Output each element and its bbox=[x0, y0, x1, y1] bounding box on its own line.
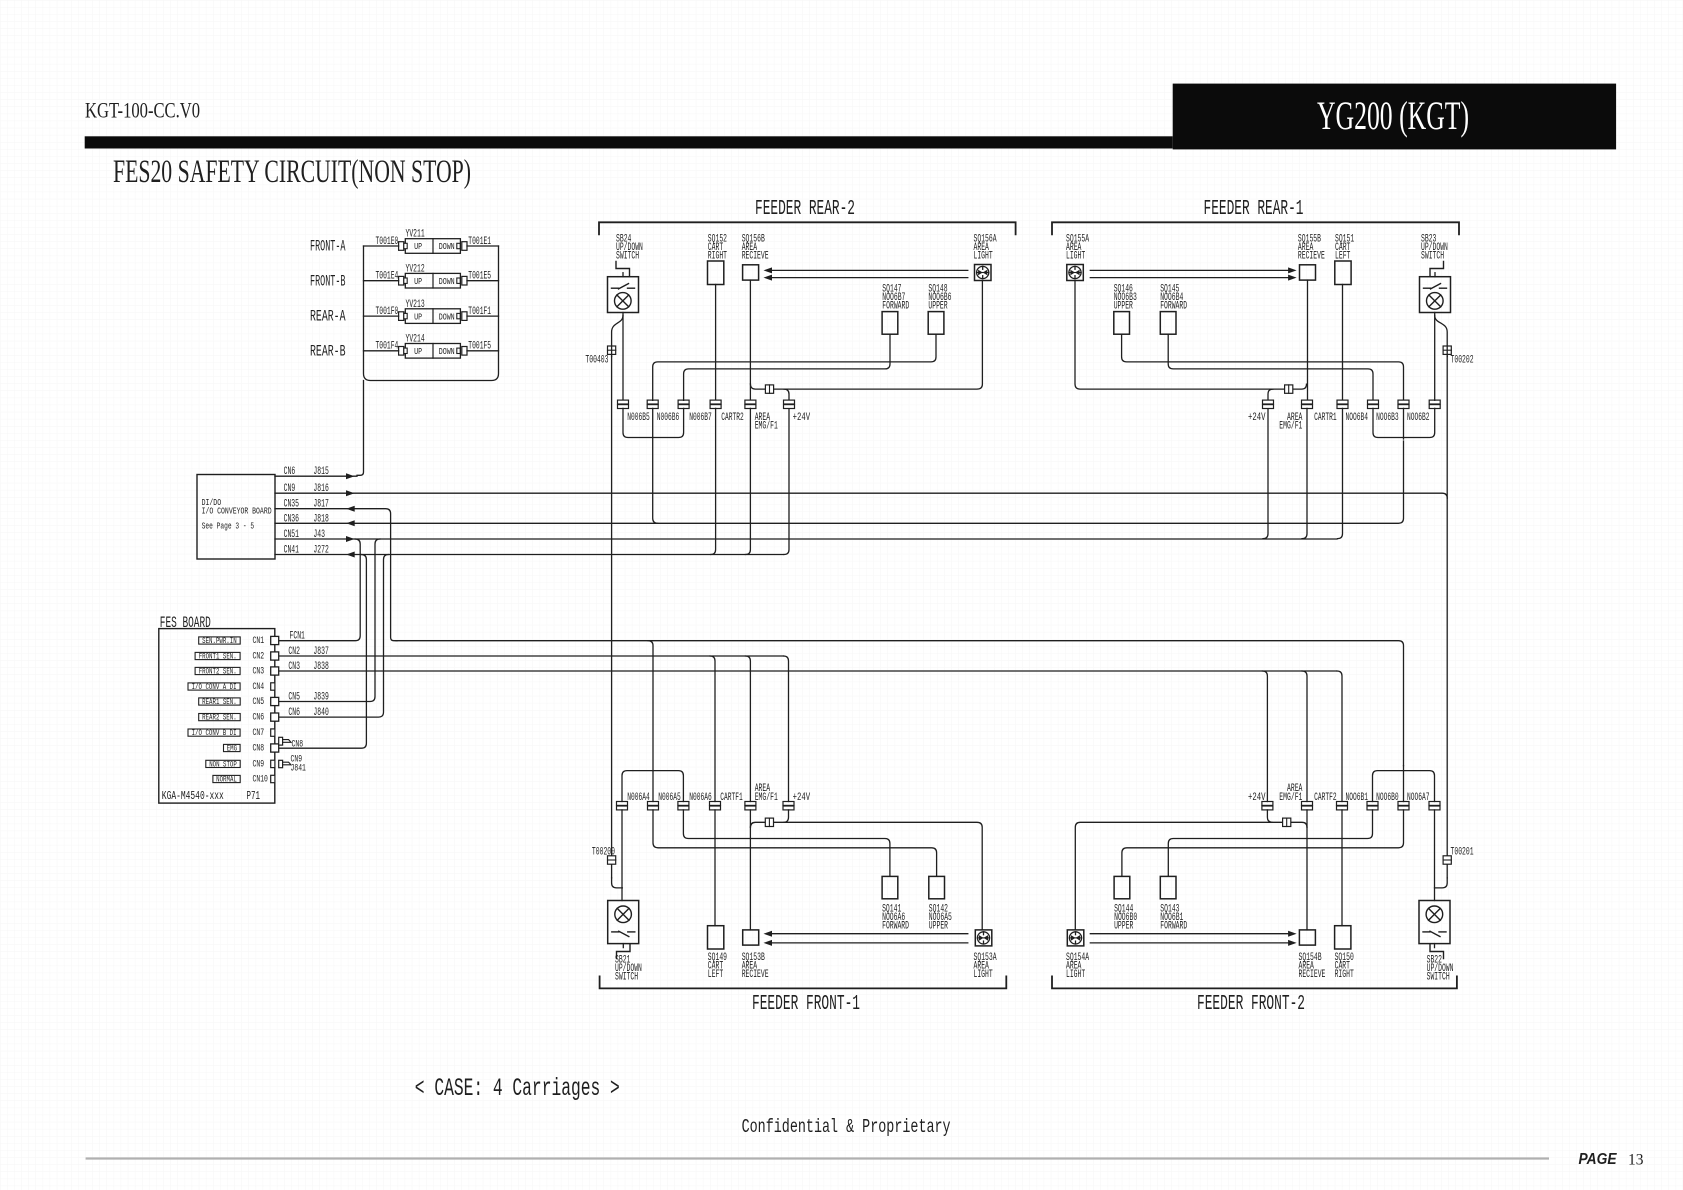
svg-text:RECIEVE: RECIEVE bbox=[1298, 251, 1325, 263]
wire J818 net bbox=[275, 441, 1404, 523]
wire AREA to J840 bbox=[745, 408, 750, 554]
svg-text:T00403: T00403 bbox=[585, 355, 608, 367]
relay YV211 left connector bbox=[399, 242, 404, 251]
wire NOO6B0 bus stub bbox=[1403, 766, 1405, 802]
svg-text:N006A4: N006A4 bbox=[627, 792, 650, 804]
arrow J816 bbox=[346, 490, 355, 496]
wire +24V fuse link front-2 bbox=[1075, 822, 1307, 930]
svg-text:CARTF2: CARTF2 bbox=[1314, 792, 1337, 804]
wire SQ147 to N006B7 bbox=[684, 334, 890, 400]
svg-text:EMG/F1: EMG/F1 bbox=[1279, 421, 1302, 433]
switch SB22 contact bbox=[1423, 931, 1430, 933]
terminal CARTR1 bbox=[1337, 400, 1348, 404]
wire REAR2SEN riser (CN6-J840) bbox=[279, 555, 389, 718]
svg-text:KGT-100-CC.V0: KGT-100-CC.V0 bbox=[85, 98, 200, 123]
wire REAR-B right bbox=[467, 350, 499, 352]
svg-text:UP: UP bbox=[414, 241, 422, 252]
svg-text:FES20 SAFETY CIRCUIT(NON STOP): FES20 SAFETY CIRCUIT(NON STOP) bbox=[113, 154, 471, 190]
terminal N006B5 bbox=[618, 400, 629, 404]
svg-text:EMG: EMG bbox=[227, 743, 237, 753]
svg-text:I/O CONVEYOR BOARD: I/O CONVEYOR BOARD bbox=[202, 506, 272, 517]
title banner bbox=[1173, 84, 1616, 150]
wire +24V front-2 to fuse bbox=[1267, 810, 1272, 822]
wire SQ141 to N006A6 bbox=[683, 810, 890, 877]
sensor SQ149 body bbox=[708, 926, 724, 949]
wire NOO6B0 to SQ144 bbox=[1122, 810, 1404, 877]
svg-text:+24V: +24V bbox=[793, 412, 811, 424]
node FES REAR1 SEN. box bbox=[199, 698, 241, 705]
wire J817 long net bbox=[396, 641, 1404, 766]
switch SB21 actuator bbox=[617, 945, 631, 959]
svg-text:UP: UP bbox=[414, 346, 422, 357]
wire AREA front-1 to SQ153B bbox=[749, 810, 751, 930]
svg-text:RECIEVE: RECIEVE bbox=[742, 251, 769, 263]
svg-text:EMG/F1: EMG/F1 bbox=[755, 792, 778, 804]
wire SQ153A arrows bbox=[771, 933, 968, 935]
terminal CARTF2 bbox=[1337, 802, 1348, 806]
svg-text:UPPER: UPPER bbox=[929, 921, 948, 933]
svg-text:CN3: CN3 bbox=[253, 666, 265, 678]
svg-text:I/O CONV B DI: I/O CONV B DI bbox=[192, 728, 237, 738]
connector fuse front-2 bbox=[1283, 818, 1291, 826]
svg-text:P71: P71 bbox=[247, 790, 261, 803]
svg-text:CN10: CN10 bbox=[253, 774, 268, 786]
sensor SQ142 body bbox=[929, 876, 945, 898]
terminal AREA EMG/F1 front-1 bbox=[745, 802, 756, 806]
arrow J815 bbox=[346, 473, 355, 479]
svg-text:CN1: CN1 bbox=[253, 635, 265, 647]
terminal N006A6 bbox=[678, 802, 689, 806]
svg-text:KGA-M4540-xxx: KGA-M4540-xxx bbox=[162, 790, 224, 803]
svg-text:REAR-B: REAR-B bbox=[310, 342, 346, 360]
svg-text:+24V: +24V bbox=[1248, 792, 1266, 804]
svg-text:NOO6B1: NOO6B1 bbox=[1346, 792, 1369, 804]
FES CN4 stub bbox=[271, 683, 275, 690]
svg-text:CN2: CN2 bbox=[288, 646, 300, 658]
wire NOO6B3 bus drop bbox=[1403, 408, 1405, 439]
connector T00403 bbox=[608, 346, 616, 354]
FES CN9 stub bbox=[271, 760, 275, 767]
svg-text:NOO6B4: NOO6B4 bbox=[1346, 412, 1369, 424]
relay YV213 right connector bbox=[457, 313, 460, 318]
FES CN6 stub bbox=[271, 713, 279, 721]
switch SB22 body bbox=[1419, 901, 1450, 944]
FES CN8 stub bbox=[271, 744, 279, 752]
relay YV211 right connector bbox=[457, 243, 460, 248]
svg-text:J838: J838 bbox=[313, 661, 328, 673]
svg-text:PAGE: PAGE bbox=[1579, 1151, 1618, 1168]
relay YV212 body bbox=[405, 273, 460, 288]
wire +24V front-2 riser to J838 bbox=[1262, 671, 1267, 802]
svg-text:SWITCH: SWITCH bbox=[616, 251, 639, 263]
svg-text:CN3: CN3 bbox=[288, 661, 300, 673]
sensor SQ155B body bbox=[1300, 265, 1316, 280]
wire J817 stub jog bbox=[275, 509, 397, 641]
wire FCN1 riser (CN51-CN1) bbox=[279, 539, 361, 641]
wire EMG riser (CN41-CN8) bbox=[279, 555, 367, 749]
wire FRONT-B right bbox=[467, 280, 499, 282]
terminal CARTR2 bbox=[710, 400, 721, 404]
terminal +24V rear-2 bbox=[784, 400, 795, 404]
switch SB24 actuator bbox=[616, 262, 630, 276]
svg-text:LIGHT: LIGHT bbox=[1066, 969, 1085, 981]
svg-text:LIGHT: LIGHT bbox=[1066, 251, 1085, 263]
FEEDER REAR-2 bracket bbox=[599, 222, 1016, 234]
wire SQ156B to AREA EMG/F1 bbox=[749, 280, 751, 400]
wire +24V front-1 riser to J837 bbox=[784, 656, 789, 802]
svg-text:+24V: +24V bbox=[793, 792, 811, 804]
sensor SQ152 body bbox=[708, 261, 724, 285]
svg-text:DOWN: DOWN bbox=[439, 311, 455, 322]
switch SB23 body bbox=[1420, 277, 1451, 313]
wire NOO6A7 to bus bbox=[1404, 771, 1435, 802]
svg-text:FRONT1 SEN.: FRONT1 SEN. bbox=[199, 651, 237, 661]
svg-text:CARTF1: CARTF1 bbox=[720, 792, 743, 804]
terminal N006A5 bbox=[648, 802, 659, 806]
svg-text:DOWN: DOWN bbox=[439, 241, 455, 252]
svg-text:RIGHT: RIGHT bbox=[1335, 969, 1354, 981]
terminal AREA EMG/F1 front-2 bbox=[1302, 802, 1313, 806]
terminal AREA EMG/F1 rear-2 bbox=[745, 400, 756, 404]
wire T00403-T00200 long vertical bbox=[611, 356, 613, 878]
wire J43/J839 net bbox=[275, 538, 1337, 540]
wire relay bus drop to J815 bbox=[357, 381, 364, 476]
wire CARTF1 to J837 bbox=[710, 656, 715, 802]
wire SB23 branch to T00202 bbox=[1435, 316, 1448, 357]
wire REAR-A right bbox=[467, 315, 499, 317]
wire NOO6B4 to bus bbox=[1373, 408, 1404, 437]
wire SQ155B to AREA EMG/F1 bbox=[1307, 280, 1309, 400]
wire NOO6A7 to SB22 bbox=[1434, 810, 1436, 901]
relay YV212 left connector bbox=[399, 276, 404, 285]
lamp SB21 bbox=[615, 906, 632, 923]
svg-text:CN6: CN6 bbox=[253, 712, 265, 724]
svg-text:RECIEVE: RECIEVE bbox=[1299, 969, 1326, 981]
wire CARTR1 to J839 bbox=[1338, 408, 1343, 538]
svg-text:J837: J837 bbox=[313, 646, 328, 658]
svg-text:NOO6B3: NOO6B3 bbox=[1376, 412, 1399, 424]
node FES NON STOP box bbox=[206, 760, 240, 767]
svg-text:UP: UP bbox=[414, 311, 422, 322]
svg-text:FRONT-B: FRONT-B bbox=[310, 272, 346, 290]
FES CN9 plug bbox=[279, 760, 283, 767]
wire NOO6B2 to bus bbox=[1404, 408, 1435, 437]
svg-text:FORWARD: FORWARD bbox=[1160, 921, 1187, 933]
terminal AREA EMG/F1 rear-1 bbox=[1302, 400, 1313, 404]
svg-text:FRONT2 SEN.: FRONT2 SEN. bbox=[199, 666, 237, 676]
svg-text:UP: UP bbox=[414, 276, 422, 287]
FES CN2 stub bbox=[271, 652, 279, 660]
wire N006A6 to bus bbox=[653, 771, 683, 802]
sensor SQ144 body bbox=[1114, 876, 1130, 898]
wire +24V drop rear-2 bbox=[784, 389, 789, 554]
wire NOO6B1 to SQ143 bbox=[1168, 810, 1372, 877]
lamp SQ153A body bbox=[975, 930, 992, 946]
switch SB21 body bbox=[608, 901, 639, 944]
FES CN1 stub bbox=[271, 636, 279, 644]
terminal NOO6B0 bbox=[1398, 802, 1409, 806]
wire FRONT-B left bbox=[364, 280, 399, 282]
wire AREA front-1 to J837 bbox=[745, 656, 750, 802]
svg-text:CN6: CN6 bbox=[288, 707, 300, 719]
FES board outline bbox=[159, 629, 275, 804]
wire SB23 to NOO6B2 bbox=[1434, 313, 1436, 401]
svg-text:CN7: CN7 bbox=[253, 727, 265, 739]
node FES REAR2 SEN. box bbox=[199, 714, 241, 721]
svg-text:SEN.PWR.IN: SEN.PWR.IN bbox=[202, 636, 237, 646]
svg-text:13: 13 bbox=[1628, 1152, 1644, 1169]
node FES NORMAL box bbox=[213, 775, 240, 782]
wire relay bus U bbox=[364, 246, 499, 381]
arrow J817 bbox=[346, 506, 355, 512]
svg-text:T00202: T00202 bbox=[1451, 355, 1474, 367]
wire T00202-T00201 long vertical bbox=[1446, 356, 1448, 878]
switch SB21 contact bbox=[612, 931, 619, 933]
terminal NOO6B2 bbox=[1429, 400, 1440, 404]
wire SQ148 to N006B6 bbox=[653, 334, 936, 400]
sensor SQ146 body bbox=[1114, 312, 1130, 335]
wire SQ156A arrows bbox=[771, 269, 968, 271]
wire CARTR2 to J840 bbox=[711, 408, 716, 554]
svg-text:CN5: CN5 bbox=[253, 696, 265, 708]
svg-text:CN8: CN8 bbox=[253, 743, 265, 755]
wire N006B6 bus drop to J818 bbox=[653, 408, 658, 523]
FEEDER REAR-1 bracket bbox=[1052, 222, 1459, 234]
svg-text:CN9: CN9 bbox=[253, 759, 265, 771]
svg-text:DOWN: DOWN bbox=[439, 346, 455, 357]
wire REAR-A left bbox=[364, 315, 399, 317]
wire N006B7 to bus bbox=[653, 408, 684, 437]
wire J837 net bbox=[279, 655, 784, 657]
connector T00201 bbox=[1443, 856, 1451, 864]
terminal +24V front-1 bbox=[783, 802, 794, 806]
wire AREA rear-1 to J839 bbox=[1302, 408, 1307, 538]
node FES SEN.PWR.IN box bbox=[199, 637, 241, 644]
node FES I/O CONV A DI box bbox=[188, 683, 240, 690]
svg-text:J839: J839 bbox=[313, 692, 328, 704]
arrow J272 bbox=[346, 552, 355, 558]
svg-text:N006B7: N006B7 bbox=[689, 412, 712, 424]
arrow J818 bbox=[346, 520, 355, 526]
lamp SB22 bbox=[1426, 906, 1443, 923]
relay YV214 body bbox=[405, 344, 460, 359]
svg-text:See Page 3 - 5: See Page 3 - 5 bbox=[202, 521, 255, 532]
wire REAR1SEN riser (CN5-J839) bbox=[279, 539, 380, 702]
relay YV213 left connector bbox=[399, 312, 404, 321]
wire SQ155A fuse link rear-1 bbox=[1075, 281, 1307, 390]
wire J816 net bbox=[275, 493, 1447, 498]
svg-text:FEEDER REAR-1: FEEDER REAR-1 bbox=[1204, 198, 1304, 221]
terminal N006B7 bbox=[678, 400, 689, 404]
terminal NOO6B4 bbox=[1368, 400, 1379, 404]
FEEDER FRONT-2 bracket bbox=[1052, 976, 1457, 988]
svg-text:SWITCH: SWITCH bbox=[615, 972, 638, 984]
wire SQ154A arrows bbox=[1090, 933, 1288, 935]
FES CN10 stub bbox=[271, 775, 275, 782]
connector T00202 bbox=[1443, 346, 1451, 354]
wire AREA front-2 to J838 bbox=[1302, 671, 1307, 802]
svg-text:UPPER: UPPER bbox=[1114, 921, 1133, 933]
wire N006B5 to bus bbox=[623, 408, 653, 437]
svg-text:FEEDER REAR-2: FEEDER REAR-2 bbox=[755, 198, 855, 221]
svg-text:N006A6: N006A6 bbox=[689, 792, 712, 804]
connector fuse rear-1 bbox=[1285, 385, 1293, 393]
wire CARTF2 to J838 bbox=[1337, 671, 1342, 802]
svg-text:CN2: CN2 bbox=[253, 651, 265, 663]
terminal +24V front-2 bbox=[1262, 802, 1273, 806]
wire FRONT-A left bbox=[364, 245, 399, 247]
svg-text:NOO6B0: NOO6B0 bbox=[1376, 792, 1399, 804]
connector fuse rear-2 bbox=[765, 385, 773, 393]
header rule bar bbox=[85, 136, 1173, 148]
terminal NOO6A7 bbox=[1429, 802, 1440, 806]
svg-text:N006B6: N006B6 bbox=[657, 412, 680, 424]
relay YV211 body bbox=[405, 239, 460, 254]
wire N006A5 bus riser to J817 bbox=[648, 641, 653, 802]
svg-text:CN5: CN5 bbox=[288, 692, 300, 704]
sensor SQ145 body bbox=[1160, 312, 1176, 335]
wire J272/J840 net bbox=[275, 554, 784, 556]
sensor SQ154B body bbox=[1299, 930, 1315, 945]
sensor SQ153B body bbox=[743, 930, 759, 945]
svg-text:SWITCH: SWITCH bbox=[1427, 972, 1450, 984]
svg-text:FRONT-A: FRONT-A bbox=[310, 238, 346, 256]
svg-text:REAR-A: REAR-A bbox=[310, 308, 346, 326]
svg-text:J840: J840 bbox=[313, 707, 328, 719]
sensor SQ151 body bbox=[1335, 261, 1351, 285]
switch SB24 body bbox=[608, 277, 639, 313]
wire CARTF2 to SQ150 bbox=[1341, 810, 1343, 926]
node FES I/O CONV B DI box bbox=[188, 729, 240, 736]
svg-text:NOO6A7: NOO6A7 bbox=[1407, 792, 1430, 804]
sensor SQ143 body bbox=[1160, 876, 1176, 898]
svg-text:J841: J841 bbox=[291, 763, 306, 775]
FES CN3 stub bbox=[271, 667, 279, 675]
wire SQ146 to NOO6B3 bbox=[1122, 334, 1404, 400]
svg-text:CN4: CN4 bbox=[253, 681, 265, 693]
terminal NOO6B3 bbox=[1398, 400, 1409, 404]
lamp SQ156A body bbox=[975, 265, 992, 281]
svg-text:NON STOP: NON STOP bbox=[209, 759, 237, 769]
wire N006A4 to bus bbox=[622, 771, 653, 802]
wire FRONT-A right bbox=[467, 245, 499, 247]
lamp SQ154A body bbox=[1067, 930, 1084, 946]
svg-text:LEFT: LEFT bbox=[708, 969, 724, 981]
svg-text:LIGHT: LIGHT bbox=[974, 969, 993, 981]
wire CARTF1 to SQ149 bbox=[714, 810, 716, 926]
svg-text:N006B5: N006B5 bbox=[627, 412, 650, 424]
FEEDER FRONT-1 bracket bbox=[600, 976, 1007, 988]
wire SQ155A arrows bbox=[1090, 269, 1288, 271]
wire SB24 branch to T00403 bbox=[612, 316, 623, 357]
switch SB22 actuator bbox=[1430, 945, 1444, 959]
svg-text:REAR1 SEN.: REAR1 SEN. bbox=[202, 697, 237, 707]
node FES FRONT1 SEN. box bbox=[195, 652, 240, 659]
terminal CARTF1 bbox=[710, 802, 721, 806]
lamp SQ155A body bbox=[1067, 265, 1084, 281]
connector fuse front-1 bbox=[765, 818, 773, 826]
svg-text:FORWARD: FORWARD bbox=[882, 921, 909, 933]
relay YV213 body bbox=[405, 309, 460, 324]
sensor SQ141 body bbox=[882, 876, 898, 898]
svg-text:I/O CONV A DI: I/O CONV A DI bbox=[192, 682, 237, 692]
svg-text:T00201: T00201 bbox=[1451, 847, 1474, 859]
svg-text:CARTR2: CARTR2 bbox=[721, 412, 744, 424]
svg-text:+24V: +24V bbox=[1248, 412, 1266, 424]
svg-text:FES BOARD: FES BOARD bbox=[160, 614, 211, 632]
lamp SB24 bbox=[615, 293, 632, 310]
svg-text:CN8: CN8 bbox=[292, 739, 304, 751]
wire REAR-B left bbox=[364, 350, 399, 352]
relay YV212 right connector bbox=[457, 278, 460, 283]
switch SB24 contact bbox=[612, 287, 619, 289]
FES CN5 stub bbox=[271, 697, 279, 705]
footer rule bbox=[86, 1157, 1549, 1159]
svg-text:NORMAL: NORMAL bbox=[216, 774, 237, 784]
terminal +24V rear-1 bbox=[1263, 400, 1274, 404]
terminal NOO6B1 bbox=[1367, 802, 1378, 806]
wire J815 bbox=[275, 475, 357, 477]
FES CN7 stub bbox=[271, 729, 275, 736]
relay YV214 right connector bbox=[457, 348, 460, 353]
lamp SB23 bbox=[1427, 293, 1444, 310]
sensor SQ156B body bbox=[743, 265, 759, 280]
svg-text:NOO6B2: NOO6B2 bbox=[1407, 412, 1430, 424]
wire NOO6B1 to bus bbox=[1373, 771, 1404, 802]
arrow J43 bbox=[346, 536, 355, 542]
svg-text:FCN1: FCN1 bbox=[290, 631, 306, 643]
svg-text:LIGHT: LIGHT bbox=[974, 251, 993, 263]
node FES FRONT2 SEN. box bbox=[195, 667, 240, 674]
wire +24V drop rear-1 bbox=[1263, 389, 1273, 538]
connector T00200 bbox=[608, 856, 616, 864]
wire +24V front-1 to fuse bbox=[784, 810, 789, 822]
svg-text:DOWN: DOWN bbox=[439, 276, 455, 287]
wire SQ152 to CARTR2 bbox=[715, 285, 717, 401]
svg-text:YG200 (KGT): YG200 (KGT) bbox=[1317, 93, 1469, 138]
sensor SQ148 body bbox=[928, 312, 944, 335]
svg-text:EMG/F1: EMG/F1 bbox=[1279, 792, 1302, 804]
wire SQ145 to NOO6B4 bbox=[1168, 334, 1373, 400]
svg-text:FEEDER FRONT-1: FEEDER FRONT-1 bbox=[752, 993, 860, 1016]
switch SB23 actuator bbox=[1430, 262, 1444, 276]
wire SQ151 to CARTR1 bbox=[1342, 285, 1344, 401]
sensor SQ147 body bbox=[882, 312, 898, 335]
svg-text:< CASE: 4 Carriages >: < CASE: 4 Carriages > bbox=[415, 1074, 620, 1103]
wire SB24 to N006B5 bbox=[622, 313, 624, 401]
svg-text:RECIEVE: RECIEVE bbox=[742, 969, 769, 981]
terminal N006A4 bbox=[617, 802, 628, 806]
wire J838 net bbox=[279, 670, 1337, 672]
node FES EMG box bbox=[224, 744, 241, 751]
I/O conveyor board DI/DO bbox=[197, 475, 275, 560]
sensor SQ150 body bbox=[1335, 926, 1351, 949]
svg-text:REAR2 SEN.: REAR2 SEN. bbox=[202, 713, 237, 723]
svg-text:FEEDER FRONT-2: FEEDER FRONT-2 bbox=[1197, 993, 1305, 1016]
svg-text:SWITCH: SWITCH bbox=[1421, 251, 1444, 263]
svg-text:CARTR1: CARTR1 bbox=[1314, 412, 1337, 424]
wire N006A4 to SB21 bbox=[621, 810, 623, 901]
wire +24V fuse link rear-2 bbox=[750, 281, 982, 390]
switch SB23 contact bbox=[1424, 287, 1431, 289]
wire AREA front-2 to SQ154B bbox=[1306, 810, 1308, 930]
svg-text:T00200: T00200 bbox=[592, 847, 615, 859]
wire SQ142 to N006A5 bbox=[653, 810, 937, 877]
wire +24V fuse link front-1 bbox=[750, 822, 982, 930]
relay YV214 left connector bbox=[399, 347, 404, 356]
svg-text:EMG/F1: EMG/F1 bbox=[755, 421, 778, 433]
terminal N006B6 bbox=[647, 400, 658, 404]
